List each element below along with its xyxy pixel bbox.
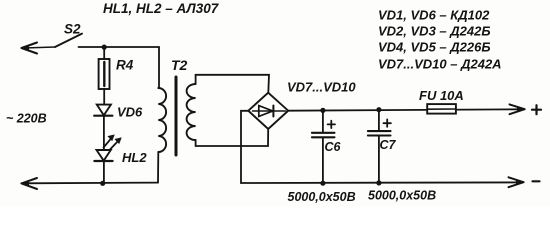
diode VD6 [97,105,111,116]
svg-text:5000,0x50В: 5000,0x50В [288,190,356,204]
wire primary bottom stem [157,152,159,183]
wire secondary top to bridge [196,75,269,93]
switch S2 [55,34,82,47]
LED HL2 [97,150,111,161]
wire secondary bottom stem [195,140,197,146]
wire secondary top stem [195,75,197,84]
bridge rectifier VD7...VD10 [248,93,288,129]
node ~220V input arrow top [24,47,55,48]
svg-text:VD7...VD10: VD7...VD10 [287,80,356,95]
resistor R4 [99,59,110,89]
wire bridge plus: right corner to output [288,109,522,110]
label plus output [532,105,541,114]
label minus [533,180,540,182]
wire primary top stem [158,47,160,88]
capacitor C6 [322,110,324,132]
svg-text:~ 220В: ~ 220В [6,112,47,126]
node junction bottom-left [100,181,105,186]
transformer T2 secondary winding [187,84,196,140]
capacitor C7 [378,110,380,131]
wire bridge minus: left corner down and along bottom [241,111,521,183]
wire secondary bottom to bridge [196,130,269,147]
fuse FU 10A [427,104,456,114]
wire bottom-left horizontal [24,182,158,185]
svg-text:VD4, VD5 – Д226Б: VD4, VD5 – Д226Б [378,40,491,55]
svg-text:HL2: HL2 [122,150,147,165]
node junction C7 bottom [376,180,381,185]
wire VD6 to HL2 [103,116,105,150]
node bottom arrow [22,178,38,189]
svg-text:R4: R4 [116,58,134,73]
svg-text:S2: S2 [64,22,81,37]
node junction top (R4 tap) [102,45,107,50]
wire HL2 to bottom [103,161,105,183]
node junction C6 top [320,108,325,113]
svg-text:VD1, VD6 – КД102: VD1, VD6 – КД102 [378,8,490,23]
svg-text:HL1, HL2 – АЛ307: HL1, HL2 – АЛ307 [103,1,220,16]
wire R4 to VD6 [103,89,105,105]
transformer T2 primary winding [158,88,166,152]
node output minus arrow [509,177,524,187]
wire top horizontal [79,46,160,48]
svg-text:VD6: VD6 [117,105,143,120]
wire R4 stem [103,47,105,59]
svg-text:C6: C6 [325,140,342,154]
svg-text:C7: C7 [380,138,397,152]
transformer core [175,77,178,155]
diode inside bridge [253,110,286,112]
svg-text:VD7...VD10 – Д242А: VD7...VD10 – Д242А [378,57,502,72]
node junction C6 bottom [320,181,325,186]
svg-text:5000,0x50В: 5000,0x50В [368,189,436,203]
svg-text:T2: T2 [171,57,188,73]
node junction C7 top [376,107,381,112]
svg-text:FU 10A: FU 10A [419,88,464,103]
node output plus arrow [510,104,525,114]
svg-text:VD2, VD3 – Д242Б: VD2, VD3 – Д242Б [378,24,491,39]
